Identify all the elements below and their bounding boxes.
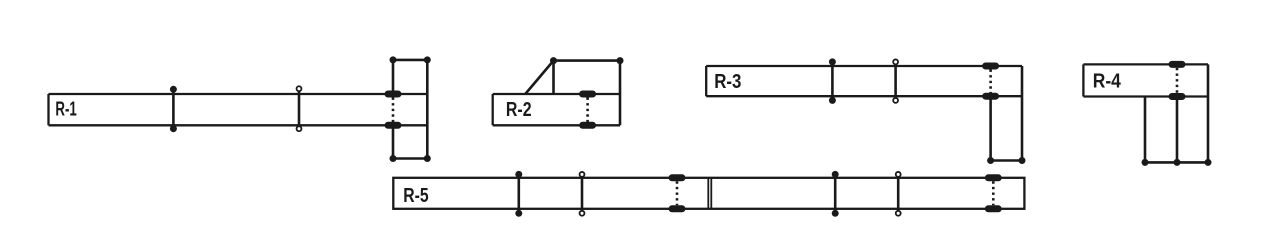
svg-text:R-3: R-3 [714,69,741,92]
svg-text:R-2: R-2 [506,97,532,120]
svg-text:R-5: R-5 [403,184,428,206]
svg-text:R-4: R-4 [1093,70,1122,93]
svg-text:R-1: R-1 [55,97,77,121]
